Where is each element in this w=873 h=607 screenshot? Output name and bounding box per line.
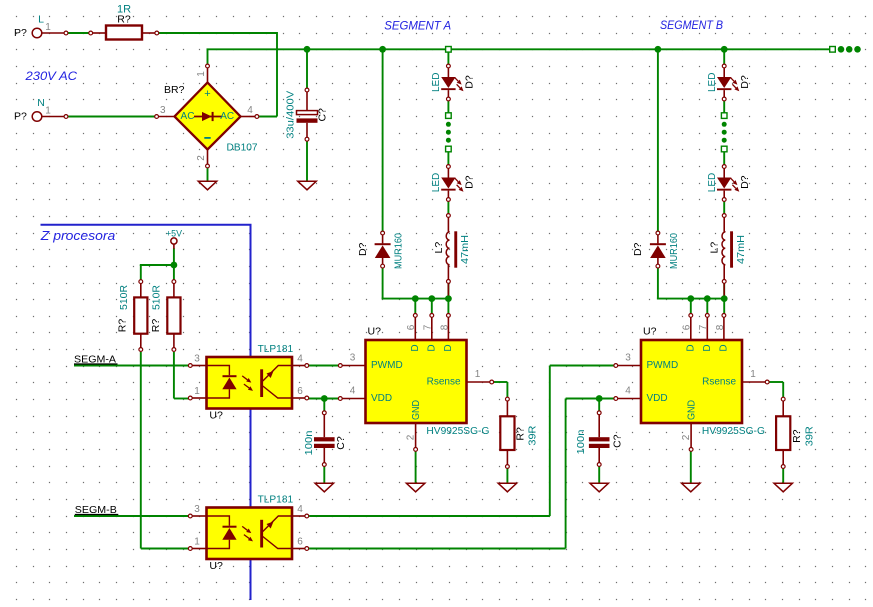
svg-text:C?: C? xyxy=(612,434,624,448)
svg-text:GND: GND xyxy=(411,400,422,420)
svg-text:47mH: 47mH xyxy=(736,235,747,264)
svg-text:R?: R? xyxy=(791,429,803,443)
wire SEGM-A to opto1 pin3 xyxy=(74,365,189,367)
resistor R6 510R right xyxy=(172,280,176,284)
junction VDD1 cap node xyxy=(321,395,328,402)
svg-text:AC: AC xyxy=(220,111,234,122)
IC U4 HV9925SG-G segment B xyxy=(641,340,742,423)
svg-text:D?: D? xyxy=(463,175,475,189)
IC pin 3 PWMD xyxy=(618,365,642,367)
wire segment B IC top pins xyxy=(690,299,692,314)
svg-text:3: 3 xyxy=(194,354,200,365)
opto phototransistor xyxy=(260,369,263,397)
ground R4 xyxy=(774,483,792,492)
capacitor C2 100n segment A xyxy=(322,411,326,415)
wire IC1 Rsense to R3 xyxy=(493,381,507,383)
svg-text:1: 1 xyxy=(45,22,51,33)
opto pins xyxy=(192,365,207,367)
svg-text:R?: R? xyxy=(514,427,526,441)
LED D5 segment B top xyxy=(722,64,726,68)
svg-text:1: 1 xyxy=(196,71,207,77)
IC pins 6 7 8 D xyxy=(690,317,692,340)
svg-text:1: 1 xyxy=(750,369,756,380)
svg-text:LED: LED xyxy=(707,73,718,92)
ground C3 xyxy=(590,483,608,492)
svg-text:D: D xyxy=(410,344,421,351)
connector P2 N xyxy=(32,112,42,122)
IC pin 2 GND xyxy=(690,423,692,448)
svg-text:SEGMENT A: SEGMENT A xyxy=(384,20,451,32)
wire +5V stem xyxy=(173,248,175,265)
svg-text:TLP181: TLP181 xyxy=(258,343,294,355)
svg-text:D: D xyxy=(443,344,454,351)
svg-text:4: 4 xyxy=(247,105,253,116)
svg-text:39R: 39R xyxy=(805,426,816,446)
svg-text:4: 4 xyxy=(297,504,303,515)
bridge pin 1 top xyxy=(207,68,209,83)
svg-text:6: 6 xyxy=(297,386,303,397)
svg-text:GND: GND xyxy=(687,400,698,420)
svg-text:VDD: VDD xyxy=(647,393,668,404)
svg-text:47mH: 47mH xyxy=(460,235,471,264)
svg-text:33u/400V: 33u/400V xyxy=(286,90,297,138)
wire segment A junction row horizontal xyxy=(382,298,449,300)
svg-text:1: 1 xyxy=(194,537,200,548)
wire cap C1 top xyxy=(306,49,308,88)
svg-text:D?: D? xyxy=(739,75,751,89)
ground bridge xyxy=(198,181,216,190)
capacitor C3 100n segment B xyxy=(597,411,601,415)
ellipsis dots segment B LED string xyxy=(722,122,727,127)
svg-text:L?: L? xyxy=(709,242,721,254)
bridge pin 2 bottom xyxy=(207,150,209,165)
svg-text:N: N xyxy=(37,97,45,109)
LED D1 segment A top xyxy=(447,64,451,68)
svg-text:6: 6 xyxy=(297,537,303,548)
IC pin 4 VDD xyxy=(618,398,642,400)
wire cap C2 bottom to ground xyxy=(323,466,325,483)
opto light arrows xyxy=(242,526,247,530)
svg-text:R?: R? xyxy=(117,319,129,333)
svg-text:VDD: VDD xyxy=(371,393,392,404)
rail end ellipsis dots xyxy=(838,46,845,53)
opto light arrows xyxy=(242,376,247,380)
svg-text:6: 6 xyxy=(406,324,417,330)
ground C2 xyxy=(315,483,333,492)
wire IC1 GND to ground xyxy=(415,451,417,483)
svg-text:7: 7 xyxy=(423,324,434,330)
svg-text:3: 3 xyxy=(194,504,200,515)
resistor R5 510R left xyxy=(139,280,143,284)
wire R3 bottom to ground xyxy=(506,468,508,483)
power symbol +5V xyxy=(171,238,177,244)
wire segment A diode branch down xyxy=(382,49,384,231)
svg-text:1: 1 xyxy=(475,369,481,380)
svg-text:LED: LED xyxy=(431,173,442,192)
ground R3 xyxy=(498,483,516,492)
wire opto2 pin4 to IC2 PWMD xyxy=(309,515,550,517)
IC U3 HV9925SG-G segment A xyxy=(366,340,467,423)
optocoupler U2 TLP181 xyxy=(207,508,293,560)
wire bridge plus to rail xyxy=(207,49,209,64)
junction rail at segment B diode xyxy=(655,46,662,53)
capacitor C1 33u/400V xyxy=(305,88,309,92)
wire-end square rail at segment A LEDs xyxy=(446,47,452,53)
wire opto1 pin6 to IC1 VDD xyxy=(308,398,339,400)
wire opto1 pin4 to IC1 PWMD xyxy=(308,365,339,367)
wire segment B LED string xyxy=(723,49,725,64)
svg-text:D: D xyxy=(718,344,729,351)
svg-text:+5V: +5V xyxy=(166,229,182,239)
svg-text:U?: U? xyxy=(209,560,223,572)
IC pin 4 VDD xyxy=(342,398,366,400)
junction rail at C1 xyxy=(304,46,311,53)
wire cap C1 bottom to ground xyxy=(306,141,308,182)
optocoupler U1 TLP181 xyxy=(207,357,293,409)
svg-text:HV9925SG-G: HV9925SG-G xyxy=(702,426,765,437)
wire-end squares segment B LED break xyxy=(721,113,727,119)
wire corner down to bridge pin 4 xyxy=(276,32,278,117)
svg-text:2: 2 xyxy=(196,155,207,161)
wire-end square rail right end xyxy=(830,47,836,53)
wire +5V to left resistor xyxy=(140,264,174,266)
svg-text:DB107: DB107 xyxy=(227,143,258,154)
IC pin 2 GND xyxy=(415,423,417,448)
svg-text:8: 8 xyxy=(715,324,726,330)
inductor L2 47mH segment B xyxy=(722,214,726,218)
svg-text:1: 1 xyxy=(45,106,51,117)
svg-text:D: D xyxy=(702,344,713,351)
resistor R3 39R segment A xyxy=(506,397,510,401)
svg-text:39R: 39R xyxy=(527,426,538,446)
svg-text:U?: U? xyxy=(209,409,223,421)
svg-text:P?: P? xyxy=(14,110,27,122)
svg-text:D?: D? xyxy=(357,242,369,256)
wire resistor R1 to corner xyxy=(158,32,278,34)
resistor R4 39R segment B xyxy=(781,397,785,401)
opto pins xyxy=(192,515,207,517)
bridge pin 3 left xyxy=(158,116,174,118)
wire cap C3 top xyxy=(598,399,600,412)
svg-text:8: 8 xyxy=(439,324,450,330)
wire R4 bottom to ground xyxy=(782,468,784,483)
svg-text:P?: P? xyxy=(14,27,27,39)
svg-text:Rsense: Rsense xyxy=(427,377,461,388)
inductor L1 47mH segment A xyxy=(447,214,451,218)
wire bridge minus to ground xyxy=(207,168,209,183)
svg-text:1: 1 xyxy=(194,386,200,397)
junction segment B row pins xyxy=(687,295,694,302)
svg-text:C?: C? xyxy=(317,108,329,122)
junction VDD2 cap node xyxy=(596,395,603,402)
wire segment B junction row horizontal xyxy=(657,298,724,300)
IC pin 1 Rsense xyxy=(742,381,766,383)
wire L phase top xyxy=(67,32,90,34)
LED D6 segment B bottom xyxy=(722,165,726,169)
opto phototransistor xyxy=(260,520,263,548)
svg-text:230V AC: 230V AC xyxy=(24,69,77,83)
svg-text:D: D xyxy=(685,344,696,351)
ground IC1 GND xyxy=(406,483,424,492)
wire right resistor down to opto1 pin1 xyxy=(173,352,175,399)
svg-text:Z procesora: Z procesora xyxy=(40,228,116,243)
bridge minus xyxy=(204,137,210,139)
ground C1 xyxy=(298,181,316,190)
LED D2 segment A bottom xyxy=(447,165,451,169)
resistor R1 1R xyxy=(89,31,93,35)
svg-text:HV9925SG-G: HV9925SG-G xyxy=(426,426,489,437)
svg-text:6: 6 xyxy=(682,324,693,330)
wire segment A diode to junction row xyxy=(382,268,384,299)
connector P1 L xyxy=(32,28,42,38)
wire segment B diode branch down xyxy=(657,49,659,231)
ground IC2 GND xyxy=(682,483,700,492)
wire IC2 Rsense to R4 xyxy=(768,381,783,383)
svg-text:AC: AC xyxy=(181,111,195,122)
wire IC2 GND to ground xyxy=(690,451,692,483)
wire N to bridge pin 3 xyxy=(67,116,156,118)
wire opto2 pin6 to IC2 VDD xyxy=(309,548,565,550)
svg-text:3: 3 xyxy=(625,353,631,364)
bridge rectifier BR1 DB107 xyxy=(175,83,241,150)
junction rail at segment A diode xyxy=(379,46,386,53)
IC pin 1 Rsense xyxy=(467,381,491,383)
blue frame line Z procesora xyxy=(41,225,251,600)
diode D3 MUR160 segment A xyxy=(381,231,385,235)
svg-text:Rsense: Rsense xyxy=(702,377,736,388)
bridge pin 4 right xyxy=(241,116,256,118)
IC pin 3 PWMD xyxy=(342,365,366,367)
ellipsis dots segment A LED string xyxy=(446,122,451,127)
junction +5V node xyxy=(171,262,178,269)
svg-text:3: 3 xyxy=(160,105,166,116)
svg-text:LED: LED xyxy=(431,73,442,92)
svg-text:LED: LED xyxy=(707,173,718,192)
svg-text:TLP181: TLP181 xyxy=(258,494,294,506)
wire main top rail xyxy=(207,48,831,50)
svg-text:R?: R? xyxy=(117,14,131,26)
svg-text:MUR160: MUR160 xyxy=(394,233,405,269)
svg-text:R?: R? xyxy=(150,319,162,333)
svg-text:MUR160: MUR160 xyxy=(669,233,680,269)
svg-text:100n: 100n xyxy=(576,430,587,455)
opto internal LED xyxy=(207,366,230,376)
junction segment A row pins xyxy=(412,295,419,302)
wire cap C3 bottom to ground xyxy=(598,466,600,483)
wire left resistor down to opto2 pin1 xyxy=(140,352,142,549)
svg-text:PWMD: PWMD xyxy=(647,360,679,371)
IC pins 6 7 8 D xyxy=(414,317,416,340)
wire-end squares segment A LED break xyxy=(446,113,452,119)
svg-text:PWMD: PWMD xyxy=(371,360,403,371)
wire +5V junction to right resistor xyxy=(173,265,175,280)
svg-text:2: 2 xyxy=(681,434,692,440)
diode D4 MUR160 segment B xyxy=(656,231,660,235)
svg-text:4: 4 xyxy=(350,386,356,397)
svg-text:BR?: BR? xyxy=(164,84,185,96)
svg-text:4: 4 xyxy=(297,354,303,365)
svg-text:SEGMENT B: SEGMENT B xyxy=(660,20,723,32)
svg-text:D?: D? xyxy=(463,75,475,89)
wire segment B diode to junction row xyxy=(657,268,659,299)
svg-text:C?: C? xyxy=(335,436,347,450)
svg-text:7: 7 xyxy=(698,324,709,330)
svg-text:D?: D? xyxy=(739,175,751,189)
wire segment A LED string xyxy=(447,49,449,64)
svg-text:L: L xyxy=(38,13,44,25)
opto internal LED xyxy=(207,516,230,526)
svg-text:4: 4 xyxy=(625,386,631,397)
wire cap C2 top xyxy=(323,399,325,412)
svg-text:3: 3 xyxy=(350,353,356,364)
svg-text:D: D xyxy=(426,344,437,351)
svg-text:U?: U? xyxy=(368,326,382,338)
wire segment A IC top pins xyxy=(414,299,416,314)
svg-text:100n: 100n xyxy=(304,431,315,456)
svg-text:510R: 510R xyxy=(119,285,130,310)
bridge internal diode xyxy=(194,116,222,118)
wire SEGM-B to opto2 pin3 xyxy=(74,515,189,517)
svg-text:L?: L? xyxy=(433,242,445,254)
svg-text:510R: 510R xyxy=(152,285,163,310)
junction rail at segment B LEDs xyxy=(721,46,728,53)
svg-text:D?: D? xyxy=(632,242,644,256)
svg-text:U?: U? xyxy=(643,326,657,338)
svg-text:+: + xyxy=(204,88,210,100)
svg-text:2: 2 xyxy=(405,434,416,440)
